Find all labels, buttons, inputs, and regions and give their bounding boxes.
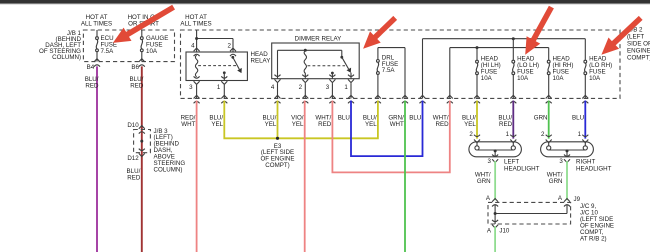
connector at boundary BLU/YEL dimmer p4 [275,95,281,103]
coil dimmer relay [304,50,306,78]
node dimmer coil tap [304,49,307,52]
fuse HEAD (HI RH) 10A [547,48,550,99]
top window bar [0,0,650,4]
svg-text:DIMMER RELAY: DIMMER RELAY [295,35,342,42]
wire label BLU/RED [498,114,512,127]
wire label BLU [338,114,350,121]
wire label BLU [409,114,421,121]
svg-text:AT R/B 2): AT R/B 2) [580,236,607,243]
svg-text:(LEFT: (LEFT [627,34,644,41]
fuse GAUGE 10A [140,30,143,62]
svg-text:COMPT): COMPT) [265,162,289,169]
svg-text:COLUMN): COLUMN) [52,54,81,61]
node E3 splice [276,137,279,140]
connector at boundary VIO/YEL [302,95,308,103]
svg-text:1: 1 [217,84,221,91]
wire WHT/GRN to ground [494,226,496,252]
svg-text:RED: RED [318,121,332,128]
wire low beam bus [423,39,586,99]
fuse DRL 7.5A [377,48,380,99]
svg-text:1: 1 [578,131,582,138]
switch head relay [223,56,242,81]
svg-text:3: 3 [488,158,492,165]
relay DIMMER RELAY box [272,43,360,79]
wire label WHT/RED [315,114,331,127]
wire label BLU [572,114,584,121]
wire label BLU/RED at B4 [85,76,99,90]
wire RED/WHT (to bottom) [196,101,198,252]
junction block J/B 3 dashed box [134,130,151,153]
svg-text:BLU: BLU [572,114,584,121]
svg-text:10A: 10A [481,75,493,82]
coil head relay [195,55,197,77]
pin 1 RIGHT headlight [578,131,589,143]
node low bus at LO LH fuse [512,37,515,40]
wire BLU/YEL to left headlight pin2 [476,101,478,139]
node inside J/B 3 [140,140,143,143]
wire WHT/RED from dimmer p3 to high bus [332,101,449,173]
connector D12 [127,149,144,162]
svg-text:7.5A: 7.5A [101,48,115,55]
wire GRN to right headlight pin2 [548,101,550,139]
svg-text:B4: B4 [87,64,95,71]
wire label GRN/WHT [388,114,404,127]
wire BLU/YEL bus from head relay pin1 to DRL via E3 [224,101,378,139]
lamp RIGHT headlight outline [541,142,594,157]
connector at boundary HEAD HI LH [474,95,480,103]
filament high RIGHT [547,142,551,150]
svg-text:10A: 10A [553,75,565,82]
svg-text:SIDE OF: SIDE OF [627,41,650,48]
svg-text:2: 2 [299,84,303,91]
filament high LEFT [475,142,479,150]
connector at boundary BLU low bus [420,95,426,103]
fuse HEAD (LO LH) label [517,56,539,82]
svg-text:WHT: WHT [181,121,195,128]
connector at boundary BLU/YEL head relay [221,95,227,103]
fuse ECU value label [101,35,118,55]
svg-text:J10: J10 [499,227,510,234]
connector A out of J10 [487,220,510,235]
connector at boundary BLU/YEL DRL [375,95,381,103]
junction block J/B 3 label [154,128,186,174]
svg-text:2: 2 [541,131,545,138]
svg-text:ALL TIMES: ALL TIMES [180,21,211,28]
svg-text:HEADLIGHT: HEADLIGHT [576,166,612,173]
connector at boundary GRN/WHT [402,95,408,103]
svg-text:1: 1 [344,84,348,91]
svg-text:RELAY: RELAY [251,58,271,65]
pin 3 LEFT headlight [488,155,499,166]
filament low RIGHT [583,142,587,150]
pin 3 RIGHT headlight [559,155,570,166]
svg-text:2: 2 [469,131,473,138]
pin 2 dimmer relay [299,75,309,99]
pin 4 dimmer relay [271,75,281,99]
svg-text:RED: RED [127,175,141,182]
svg-text:ALL TIMES: ALL TIMES [81,21,112,28]
filament low LEFT [511,142,515,150]
wire WHT/GRN from RIGHT headlight [566,161,568,200]
wire BLU from dimmer p1 to low bus [351,101,423,157]
wire label RED/WHT [181,114,196,127]
wire BLU/RED from B4 (magenta) [96,66,98,252]
engine compartment / R/B 2 dashed box [181,30,621,98]
fuse HEAD (LO LH) 10A [512,39,515,99]
pin 1 head relay [217,76,227,98]
connector at boundary BLU [348,95,354,103]
pin 3 head relay [189,76,199,98]
fuse HEAD (HI RH) label [553,56,574,82]
connector A into J/C 9 left [486,195,498,206]
wire LEFT headlight common [477,150,513,157]
pin 1 dimmer relay [344,75,354,99]
svg-text:YEL: YEL [265,121,277,128]
fuse DRL value label [382,54,399,74]
annotation red arrow 3 [525,6,554,55]
wire label BLU/RED at B6 [130,76,144,90]
relay block R/B 2 label [627,27,650,62]
label LEFT HEADLIGHT [504,159,540,173]
relay HEAD RELAY box [186,52,247,81]
node RIGHT headlight common [566,149,569,152]
svg-text:RED: RED [499,121,513,128]
label J/C 9 J/C 10 [580,203,614,243]
svg-text:7.5A: 7.5A [382,67,396,74]
wire BLU/RED from B6 (dark red) [141,66,143,252]
svg-text:3: 3 [326,84,330,91]
label E3 splice [260,143,294,169]
wire BLU to right headlight pin1 [584,101,586,139]
wire high beam bus [450,48,549,99]
wire dimmer internal bus [278,50,342,78]
svg-text:YEL: YEL [292,121,304,128]
svg-text:4: 4 [191,42,195,49]
pin 3 dimmer relay [326,75,336,99]
svg-text:3: 3 [189,84,193,91]
wire label WHT/GRN LEFT [475,172,491,186]
label HOT AT ALL TIMES (center) [180,14,211,27]
svg-text:ENGINE: ENGINE [627,48,650,55]
fuse HEAD (HI LH) label [481,56,501,82]
svg-text:WHT: WHT [390,121,404,128]
wire label WHT/GRN RIGHT [547,172,563,186]
pin 2 LEFT headlight [469,131,480,143]
svg-text:RED: RED [436,121,450,128]
node head relay feed split [195,37,198,40]
wire label BLU/YEL [263,114,277,127]
wire VIO/YEL (to bottom) [304,101,306,252]
node high bus at HI LH fuse [476,46,479,49]
svg-text:3: 3 [559,158,563,165]
svg-text:YEL: YEL [464,121,476,128]
fuse HEAD (HI LH) 10A [476,48,479,99]
svg-text:1: 1 [506,131,510,138]
connector at boundary WHT/RED high bus [447,95,453,103]
svg-text:BLU: BLU [409,114,421,121]
annotation red arrow 1 [113,5,175,43]
svg-text:2: 2 [228,42,232,49]
svg-text:HEADLIGHT: HEADLIGHT [504,166,540,173]
svg-text:RED: RED [130,83,144,90]
linkage dimmer relay [308,65,346,67]
switch dimmer relay [331,50,351,78]
wire RIGHT headlight common [549,150,586,157]
fuse HEAD (LO RH) 10A [584,39,587,99]
label HOT IN ON OR START [128,14,160,27]
svg-text:COMPT): COMPT) [627,55,650,62]
svg-text:B6: B6 [131,64,139,71]
svg-text:D12: D12 [127,155,139,162]
svg-text:J9: J9 [574,196,581,203]
lamp LEFT headlight outline [469,142,522,157]
wire label VIO/YEL [291,114,304,127]
node LEFT headlight common [494,149,497,152]
connector at boundary HEAD HI RH [546,95,552,103]
svg-text:GRN: GRN [534,114,548,121]
linkage head relay [198,65,236,67]
svg-text:BLU: BLU [338,114,350,121]
fuse ECU 7.5A [96,30,99,62]
wire label BLU/YEL [462,114,476,127]
label HOT AT ALL TIMES (left) [81,14,112,27]
wire label GRN [534,114,548,121]
fuse HEAD (LO RH) label [589,56,612,82]
junction block J/B 1 dashed box [83,30,174,62]
pin 4 head relay [191,42,199,56]
connector at boundary HEAD LO LH [510,95,516,103]
svg-text:10A: 10A [146,48,158,55]
svg-text:4: 4 [271,84,275,91]
svg-text:GRN: GRN [477,178,491,185]
svg-text:YEL: YEL [365,121,377,128]
svg-text:10A: 10A [517,75,529,82]
svg-text:10A: 10A [589,75,601,82]
junction block J/B 1 label [39,30,82,61]
wire label BLU/YEL [363,114,377,127]
wire head relay feed [197,30,233,52]
connector at boundary RED/WHT [194,95,200,103]
pin 1 LEFT headlight [506,131,517,143]
connector at boundary WHT/RED [329,95,335,103]
wire label BLU/YEL [209,114,223,127]
wire GRN/WHT (to bottom) [404,101,406,252]
svg-text:YEL: YEL [211,121,223,128]
connector D10 [127,122,144,134]
wire WHT/GRN from LEFT headlight [494,161,496,200]
svg-text:D10: D10 [127,122,139,129]
label RIGHT HEADLIGHT [576,159,612,173]
fuse GAUGE value label [146,35,168,55]
connector B6 [131,59,144,71]
annotation red arrow 4 [601,16,642,55]
svg-text:GRN: GRN [549,178,563,185]
pin 2 RIGHT headlight [541,131,552,143]
wire inside J/C [495,205,567,224]
wire label WHT/RED [433,114,449,127]
connector A into J/C 9 right [558,195,570,206]
connector B4 [87,59,100,71]
svg-text:RED: RED [85,83,99,90]
pin 2 head relay [228,42,236,56]
relay HEAD RELAY label [251,51,271,65]
junction connector J/C dashed box [488,202,571,224]
wire BLU/RED to left headlight pin1 [512,101,514,139]
svg-text:COLUMN): COLUMN) [154,166,183,173]
connector at boundary HEAD LO RH [582,95,588,103]
wire label BLU/RED below D12 [127,168,141,182]
node J/C [494,212,497,215]
wire DRL fuse output to GRN/WHT [378,48,405,99]
annotation red arrow 2 [363,16,397,49]
